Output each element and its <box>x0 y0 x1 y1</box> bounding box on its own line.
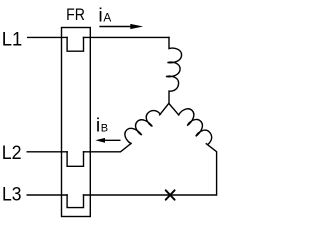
svg-text:L3: L3 <box>2 183 21 205</box>
label L1 <box>2 28 22 49</box>
winding phase C coil <box>176 106 217 147</box>
wire L2 <box>27 144 131 152</box>
svg-text:L1: L1 <box>2 28 22 49</box>
winding phase A coil <box>166 37 182 103</box>
svg-text:i: i <box>96 115 100 137</box>
fault mark x on L3 <box>166 190 175 199</box>
heater element FR phase L2 <box>67 152 83 167</box>
label L3 <box>2 183 21 205</box>
wire L1 <box>28 36 169 38</box>
star point node <box>160 103 179 115</box>
wire L3 <box>27 144 216 195</box>
arrow iB <box>95 138 120 143</box>
svg-text:i: i <box>98 5 102 27</box>
heater element FR phase L1 <box>67 37 83 51</box>
winding phase B coil <box>122 105 163 146</box>
label iA <box>98 5 111 27</box>
label L2 <box>2 141 22 163</box>
svg-text:A: A <box>103 11 111 25</box>
label FR <box>66 6 85 24</box>
arrow iA <box>99 24 143 29</box>
svg-text:FR: FR <box>66 6 85 24</box>
thermal relay FR box <box>62 28 91 217</box>
svg-text:B: B <box>101 123 108 135</box>
svg-text:L2: L2 <box>2 141 22 163</box>
heater element FR phase L3 <box>67 195 83 208</box>
label iB <box>96 115 108 137</box>
